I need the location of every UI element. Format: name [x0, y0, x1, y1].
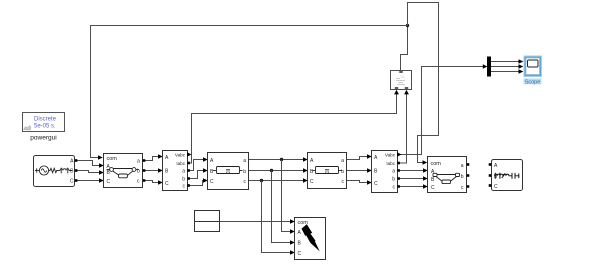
- wire V-I 2 b to breaker2 B: [400, 178, 424, 180]
- svg-text:powergui: powergui: [30, 135, 56, 142]
- three-phase V-I measurement 2: [372, 151, 402, 193]
- three-phase series RLC load: [489, 160, 523, 191]
- wire source A to breaker1 A: [77, 161, 100, 166]
- svg-text:C: C: [70, 179, 74, 185]
- three-phase breaker 1: [104, 154, 146, 188]
- svg-text:com: com: [107, 156, 118, 162]
- wire PI line 1 c to PI line 2 C: [249, 180, 304, 182]
- svg-text:a: a: [341, 158, 344, 164]
- wire V-I 1 c to PI line 1 C: [190, 181, 204, 186]
- svg-text:Iabc: Iabc: [176, 161, 185, 166]
- relay subsystem block: [391, 71, 412, 90]
- svg-text:Scope: Scope: [525, 79, 541, 85]
- svg-text:Vabc: Vabc: [175, 152, 186, 157]
- svg-text:a: a: [137, 159, 140, 165]
- three-phase PI section line 2: [308, 153, 347, 189]
- wire PI line 2 c to V-I 2 C: [347, 181, 368, 183]
- node junction: [406, 24, 409, 27]
- svg-text:Iabc: Iabc: [386, 161, 395, 166]
- wire PI line 1 a to PI line 2 A: [249, 159, 304, 161]
- wire V-I 1 a to PI line 1 A: [190, 160, 204, 171]
- svg-text:b: b: [243, 169, 246, 175]
- svg-text:b: b: [392, 177, 395, 183]
- svg-text:com: com: [431, 161, 442, 167]
- timer block: [195, 211, 220, 232]
- svg-text:a: a: [461, 163, 464, 169]
- wire junction to breaker1 com: [91, 26, 408, 158]
- wire breaker1 c to V-I 1 C: [145, 181, 159, 183]
- wire timer to fault com: [220, 221, 291, 223]
- wire demux out 1 to scope in 1: [491, 61, 519, 63]
- svg-text:C: C: [374, 181, 378, 187]
- wire tap a to fault A: [282, 160, 291, 232]
- svg-text:C: C: [298, 251, 302, 257]
- svg-text:C: C: [310, 179, 314, 185]
- wire source B to breaker1 B: [77, 171, 100, 173]
- svg-text:C: C: [165, 181, 169, 187]
- svg-text:a: a: [182, 169, 185, 175]
- wire V-I 1 b to PI line 1 B: [190, 171, 204, 179]
- wire V-I 2 c to breaker2 C: [400, 186, 424, 188]
- three-phase breaker 2: [428, 157, 470, 193]
- svg-text:C: C: [210, 179, 214, 185]
- wire tap b to fault B: [272, 171, 291, 243]
- wire demux out 3 to scope in 3: [491, 71, 519, 73]
- wire breaker1 b to V-I 1 B: [145, 170, 159, 172]
- svg-text:C: C: [107, 179, 111, 185]
- three-phase source block: [34, 156, 78, 187]
- svg-text:b: b: [182, 176, 185, 182]
- wire tap c to fault C: [262, 181, 291, 253]
- svg-text:π: π: [226, 168, 231, 175]
- wire V-I 2 Iabc to relay input 2: [398, 94, 407, 163]
- wire V-I 2 a to breaker2 A: [400, 170, 424, 172]
- wire V-I 1 Iabc to relay input 1: [188, 94, 397, 163]
- wire source C to breaker1 C: [77, 180, 100, 182]
- demux: [487, 57, 491, 77]
- svg-text:C: C: [431, 185, 435, 191]
- svg-text:π: π: [325, 168, 330, 175]
- three-phase V-I measurement 1: [163, 151, 192, 191]
- svg-text:5e-05 s.: 5e-05 s.: [34, 124, 56, 130]
- powergui block: [23, 113, 65, 142]
- wire relay output up to junction: [401, 26, 408, 71]
- node tap phase a: [280, 158, 283, 161]
- svg-text:Vabc: Vabc: [385, 153, 396, 158]
- wire V-I 2 Vabc to demux: [398, 67, 484, 155]
- svg-text:Discrete: Discrete: [34, 117, 57, 123]
- three-phase PI section line 1: [208, 153, 249, 190]
- wire junction to breaker2 com: [408, 3, 439, 163]
- svg-text:C: C: [494, 184, 498, 190]
- wire PI line 1 b to PI line 2 B: [249, 170, 304, 172]
- svg-text:a: a: [243, 158, 246, 164]
- svg-text:b: b: [461, 174, 464, 180]
- wire demux out 2 to scope in 2: [491, 66, 519, 68]
- node tap phase b: [270, 169, 273, 172]
- node tap phase c: [260, 179, 263, 182]
- svg-text:b: b: [341, 169, 344, 175]
- svg-text:a: a: [392, 169, 395, 175]
- wire PI line 2 b to V-I 2 B: [347, 170, 368, 172]
- wire PI line 2 a to V-I 2 A: [347, 157, 368, 160]
- scope block (selected): [524, 56, 543, 86]
- three-phase fault block: [295, 218, 326, 260]
- wire breaker1 a to V-I 1 A: [145, 157, 159, 161]
